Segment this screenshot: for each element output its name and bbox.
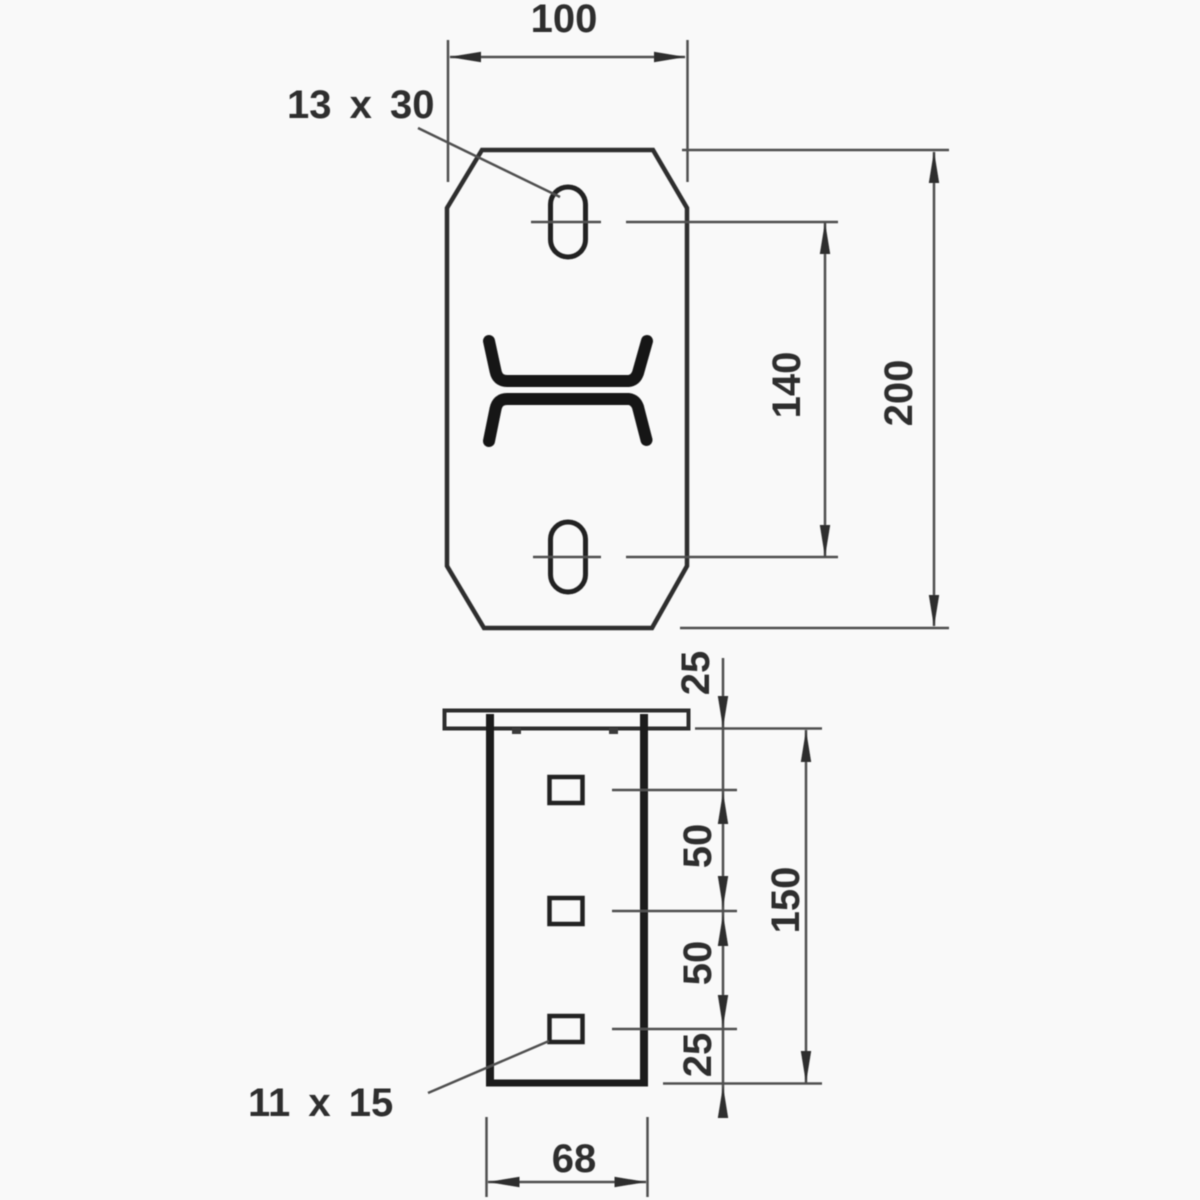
centerline upper slot (531, 221, 838, 224)
weld mark left (512, 728, 521, 734)
arrow top of 150 (801, 730, 811, 762)
channel bottom edge (486, 1080, 648, 1087)
dimension 140 line (824, 223, 827, 556)
dimension 68 extension lines (487, 1117, 648, 1197)
square hole 2 (550, 898, 583, 924)
svg-text:25: 25 (674, 651, 718, 696)
arrow top of 140 (820, 222, 830, 254)
leader 13x30 (418, 128, 560, 197)
svg-text:68: 68 (552, 1137, 597, 1181)
arrow bottom of 150 (801, 1051, 811, 1083)
flange plate (side view) (445, 711, 689, 729)
extension line flange bottom (150 top) (695, 727, 822, 730)
arrow up at hole2 (718, 914, 728, 946)
svg-text:140: 140 (765, 352, 809, 419)
arrow down at hole3 (718, 995, 728, 1027)
square hole 1 (550, 777, 583, 803)
arrow top of 200 (929, 151, 939, 183)
chain dimension line (722, 658, 725, 1114)
dimension 100 line (450, 56, 685, 59)
leader 11x15 (428, 1041, 549, 1093)
svg-text:150: 150 (764, 867, 808, 934)
dimension 68 line (488, 1181, 646, 1184)
centerline lower slot (533, 556, 838, 559)
arrow up at hole1 (718, 792, 728, 824)
channel profile upper half (bold) (489, 341, 647, 381)
slotted hole 13x30 upper (551, 187, 586, 257)
arrow 25 top (down) (718, 696, 728, 728)
channel left wall (486, 714, 494, 1083)
dimension 150 line (805, 730, 808, 1083)
dimension 200 line (933, 152, 936, 626)
arrow down at hole2 (718, 876, 728, 908)
svg-text:100: 100 (531, 0, 598, 41)
channel profile lower half (bold) (489, 399, 647, 441)
arrow left of 100 (449, 52, 481, 62)
arrow left of 68 (488, 1177, 520, 1187)
svg-text:11 x 15: 11 x 15 (248, 1081, 393, 1125)
arrow bottom of 200 (929, 595, 939, 627)
extension line channel bottom (150 bottom) (663, 1082, 822, 1085)
arrow right of 68 (615, 1177, 647, 1187)
channel right wall (640, 714, 648, 1083)
arrow right of 100 (654, 52, 686, 62)
hole centerlines (612, 790, 737, 1029)
svg-text:50: 50 (676, 824, 720, 869)
square hole 3 (550, 1016, 583, 1042)
weld mark right (609, 728, 618, 734)
svg-text:13 x 30: 13 x 30 (287, 83, 434, 127)
svg-text:50: 50 (676, 941, 720, 986)
svg-text:200: 200 (877, 360, 921, 427)
slotted hole 13x30 lower (551, 522, 586, 592)
head plate outline (top view) (447, 150, 687, 628)
svg-text:25: 25 (676, 1033, 720, 1078)
arrow bottom of 140 (820, 525, 830, 557)
dimension 200 extension lines (680, 150, 949, 628)
arrow up at bottom (25) (718, 1086, 728, 1118)
dimension 100 extension lines (448, 40, 688, 182)
